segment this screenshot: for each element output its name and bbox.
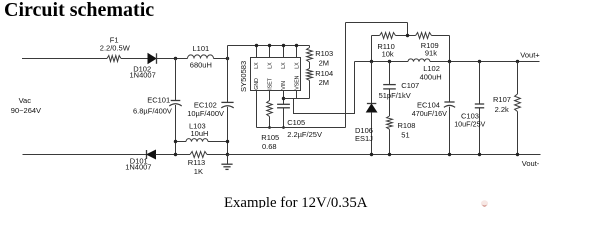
pin stub LX4: [296, 46, 298, 58]
node VIN feedback tap: [282, 97, 285, 100]
resistor R110: [380, 33, 396, 39]
wire D101 to R113: [156, 154, 191, 156]
node D106 bottom: [370, 153, 373, 156]
wire switch rail: [355, 61, 409, 63]
pin stub LX2: [269, 46, 271, 58]
fuse F1: [107, 56, 121, 62]
wire R110 R109 node: [396, 35, 416, 37]
wire GND pin stub: [256, 91, 258, 128]
title: [4, 0, 154, 22]
wire Vout rail: [430, 61, 540, 63]
inductor L101: [188, 55, 214, 59]
wire feedback top: [346, 22, 408, 24]
wire feedback drop: [407, 23, 409, 36]
resistor R103: [307, 48, 313, 63]
wire B jog: [294, 62, 355, 114]
wire feedback riser: [345, 23, 347, 128]
wire R109 drop to Vout: [449, 36, 451, 62]
wire between R103 R104: [309, 62, 311, 68]
capacitor C107: [389, 62, 391, 85]
pin stub LX3: [283, 46, 285, 58]
wire chain bottom: [309, 80, 311, 98]
wire top input left segment: [22, 58, 107, 60]
diode D101: [146, 150, 148, 159]
node bus: [226, 57, 229, 60]
caption: [224, 195, 367, 212]
resistor R105: [267, 101, 273, 117]
capacitor C103: [479, 62, 481, 104]
wire bus riser to LX rail: [227, 46, 229, 59]
node R107 top: [516, 60, 519, 63]
resistor R113: [190, 152, 207, 158]
wire VSEN pin stub: [296, 91, 298, 99]
wire bottom rail left: [23, 154, 147, 156]
node snubber top: [388, 60, 391, 63]
resistor R109: [416, 33, 432, 39]
wire R107 bottom lead: [517, 112, 519, 155]
capacitor EC102: [227, 59, 229, 103]
node EC101 top: [174, 57, 177, 60]
wire VIN pin stub: [283, 91, 285, 105]
wire R105 to gnd wire: [269, 117, 271, 128]
wire L101 to bus node: [214, 58, 228, 60]
inductor L103: [176, 141, 187, 143]
resistor R107: [515, 94, 521, 112]
wire R110 left lead: [372, 35, 380, 37]
wire bottom rail right: [228, 154, 541, 156]
capacitor EC101: [175, 59, 177, 101]
node EC104 bottom: [448, 153, 451, 156]
wire R113 to gnd node: [207, 154, 228, 156]
wire R109 right lead: [432, 35, 450, 37]
wire IC gnd net: [257, 127, 346, 129]
node C103 top: [478, 60, 481, 63]
wire R108 bottom lead: [389, 129, 391, 154]
wire A feedback: [284, 98, 310, 100]
wire chain top: [309, 46, 311, 48]
node L103 left bottom: [174, 153, 177, 156]
capacitor EC104: [449, 62, 451, 102]
inductor L102: [408, 59, 430, 62]
node R108 bottom: [388, 153, 391, 156]
wire ISET pin stub: [269, 91, 271, 101]
wire F1 to D102: [121, 58, 148, 60]
resistor R108: [387, 116, 393, 129]
wire R107 top lead: [517, 62, 519, 95]
watermark arrow: [481, 200, 488, 206]
capacitor C105: [277, 103, 290, 105]
pin stub LX1: [256, 46, 258, 58]
wire R110 drop to switch node: [371, 36, 373, 62]
diode D106: [371, 62, 373, 104]
wire D102 to L101: [157, 58, 188, 60]
node EC104 top: [448, 60, 451, 63]
node C103 bottom: [478, 153, 481, 156]
diode D102: [148, 54, 156, 64]
node R107 bottom: [516, 153, 519, 156]
ground: [227, 155, 229, 165]
resistor R104: [307, 68, 313, 80]
node D106 top: [370, 60, 373, 63]
node gnd: [226, 153, 229, 156]
IC U1 SY50583 body: [251, 58, 301, 91]
wire LX rail: [228, 45, 310, 47]
